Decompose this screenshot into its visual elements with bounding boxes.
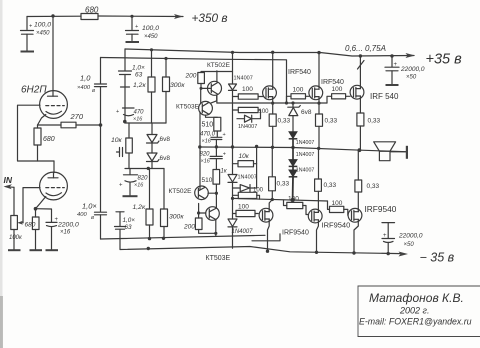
wire +350V rail [27,15,81,17]
node junction G x272 [271,146,274,149]
arrow input [4,184,15,189]
node junction Q4 emitter [214,232,217,235]
node junction G x256 [255,145,258,148]
wire output line G [200,147,406,152]
svg-text:680: 680 [25,222,36,229]
svg-text:22000,0: 22000,0 [400,66,425,73]
resistor R 100 gate2 upper [287,87,310,104]
wiper arrow into pot [18,221,24,225]
node junction bus lower x272 [271,198,274,201]
tube V1 upper triode [38,16,68,125]
node junction G x232 [231,145,234,148]
resistor R 100 gate3 lower [328,200,348,215]
svg-text:1,2к: 1,2к [133,204,146,211]
svg-text:300к: 300к [170,82,185,89]
svg-text:+: + [119,183,123,189]
capacitor C 2200,0x16 cathode bypass [36,209,80,250]
svg-text:+: + [29,24,33,30]
svg-text:IRF9540: IRF9540 [322,221,351,230]
svg-text:×400: ×400 [77,85,91,91]
wire gate bus lower y198.5 [233,198,328,201]
arrowhead -35 [399,252,409,257]
wire tube1 grid to SRPP midpoint [18,105,55,161]
svg-text:+: + [383,233,387,239]
bar terminal mid [121,86,130,88]
node junction G x199 [198,145,201,148]
svg-text:400: 400 [77,212,87,218]
svg-text:IRF540: IRF540 [288,69,311,76]
svg-text:100к: 100к [9,235,23,241]
svg-text:+: + [116,109,119,115]
node junction rail C x166 [164,57,167,60]
node junction V1 gate bus [231,197,234,200]
node junction 270/rail [99,123,103,127]
node junction M3 drain on rail [359,54,362,57]
svg-text:1,0×: 1,0× [82,202,97,211]
svg-text:6v8: 6v8 [160,155,171,162]
wire 270 to rail x100 [76,124,101,126]
diode VD 1N4007 horizontal lower [233,164,264,194]
resistor R 10k lower horizontal [233,147,257,167]
mosfet M4 IRF9540 [259,191,273,251]
resistor R 10k vertical [111,123,132,169]
wire +35 corner into 1,0x63 upper [124,49,126,71]
svg-text:0,33: 0,33 [324,182,337,189]
node junction M1 source bus [271,102,274,105]
transistor Q3 KT502E lower [195,186,217,200]
svg-text:100,0: 100,0 [142,25,159,32]
resistor R 680 cathode upper [34,125,55,161]
resistor R 0,33 lower2 [315,148,337,191]
svg-text:КТ503Е: КТ503Е [206,255,231,262]
wire link E to F at x120 [119,239,121,249]
svg-text:IN: IN [4,175,13,185]
wire bias wire y123 [125,122,166,124]
ground below pot [8,249,21,251]
resistor R 300k lower [161,169,185,238]
node junction bus E x149 [148,237,151,240]
svg-text:680: 680 [85,6,99,15]
resistor R 100 gate1 upper [233,86,264,99]
capacitor C 470x16 upper [116,108,144,123]
node junction 22000 lower on rail [387,252,390,255]
svg-text:10к: 10к [111,137,123,144]
resistor R 0,33 upper1 [269,114,290,147]
diode VD 1N4007 horizontal upper [237,110,261,130]
ground below left cap [21,51,35,53]
wire bus E y238 [101,235,266,239]
wire base vertical x199 down [199,112,201,190]
node junction M4 drain [266,250,269,253]
wire rail to arrow [98,15,183,18]
node junction bus D x148 [147,167,150,170]
svg-text:0,33: 0,33 [278,118,291,125]
ground below 2200 cap [46,249,59,251]
mosfet M5 IRF9540 [308,191,322,252]
svg-text:×450: ×450 [36,31,50,37]
svg-text:1N4007: 1N4007 [238,124,257,130]
node junction Q4 base [197,211,200,214]
svg-text:IRF 540: IRF 540 [370,92,399,101]
svg-text:6v8: 6v8 [160,136,171,143]
arrowhead +35 [406,53,416,58]
svg-text:100: 100 [293,87,304,94]
capacitor C 470,0x16 [200,132,226,157]
node junction G x318 [317,147,320,150]
svg-text:0,33: 0,33 [277,181,290,188]
ground bar below 820 cap [123,195,138,197]
capacitor C 820x16 mid [200,152,227,170]
wire Q3 to Q4 base vertical [198,204,200,214]
svg-text:680: 680 [43,136,55,143]
svg-text:×16: ×16 [133,117,143,123]
svg-text:100: 100 [242,86,253,93]
speaker [374,142,407,161]
node junction G x293 [291,146,294,149]
node junction bus x286 [285,101,288,104]
mosfet M1 IRF540 [263,52,277,114]
resistor R 100 gate1 lower [233,204,259,217]
svg-text:470: 470 [134,110,145,116]
svg-text:+35 в: +35 в [426,52,463,68]
wire V1 vertical x232 top [232,52,234,84]
svg-text:300к: 300к [169,214,184,221]
wire vertical rail x100 upper [100,58,102,84]
svg-text:1N4007: 1N4007 [296,140,315,146]
resistor R 0,33 lower3 [355,150,380,211]
mosfet M2 IRF540 [309,53,323,114]
svg-text:6v8: 6v8 [301,109,312,116]
svg-text:×16: ×16 [202,139,212,145]
svg-text:22000,0: 22000,0 [398,233,423,240]
svg-text:2002 г.: 2002 г. [399,306,429,316]
svg-text:IRF9540: IRF9540 [282,230,309,237]
node junction on rail x53 [51,14,54,17]
resistor R 200 upper [185,73,211,89]
wire gate bus upper y103 [217,102,327,104]
resistor R 0,33 upper2 [316,114,338,148]
arrowhead +350 [174,14,183,19]
wire bus E corner piece [252,234,280,241]
svg-text:в: в [91,215,94,221]
svg-text:в: в [92,88,95,94]
svg-text:×50: ×50 [406,75,417,81]
zener VD 6v8 second [147,153,171,169]
node junction on rail x132 [130,15,133,18]
mosfet M6 IRF9540 [348,208,362,253]
capacitor C 100,0x450 left [21,17,52,51]
svg-text:100: 100 [332,200,343,207]
diode VD 1N4007 on V1 mid [228,175,257,220]
svg-text:6Н2П: 6Н2П [21,85,47,96]
svg-text:100: 100 [288,196,299,203]
svg-text:200: 200 [185,73,197,80]
wire +35V rail [125,49,414,56]
capacitor C 820x16 left with ground [119,169,148,196]
wire bias bus D y168.5 [125,168,164,170]
node junction bus lower x292 [290,198,294,202]
capacitor C 22000,0x50 upper [385,54,425,84]
resistor R 100 gate2 lower [284,196,308,215]
diode chain VD 1N4007 x293 first [289,132,315,148]
svg-text:− 35 в: − 35 в [420,251,455,265]
node junction G x216 [215,145,218,148]
svg-text:1N4007: 1N4007 [296,168,315,174]
svg-text:+: + [135,24,139,30]
tube V2 lower triode [36,161,68,209]
svg-text:+350 в: +350 в [192,11,228,25]
wire V1 vertical x232 mid [232,147,234,175]
svg-text:10к: 10к [239,153,250,160]
node junction Q1 base [200,87,203,90]
svg-text:1N4007: 1N4007 [238,175,257,181]
svg-text:IRF540: IRF540 [321,79,344,86]
ground bar below 22000 upper [386,84,399,86]
resistor R 100 gate3 upper [327,86,350,103]
ground below second cap [126,41,140,43]
node junction M2 drain on rail [317,51,320,54]
node junction Q3 collector [215,192,218,195]
resistor R 680 anode [81,14,98,20]
svg-text:1N4007: 1N4007 [232,229,254,235]
svg-text:КТ503Е: КТ503Е [176,104,200,111]
svg-text:1,2к: 1,2к [133,82,146,89]
diode VD 1N4007 on V1 bottom [228,219,253,248]
fuse slash on M3 drain [358,61,365,70]
resistor R 200 lower [183,213,216,236]
resistor R 1,2k upper [133,50,155,123]
svg-text:+: + [394,62,398,68]
svg-text:100,0: 100,0 [34,22,51,29]
diode VD 1N4007 on V1 top [229,76,253,148]
capacitor C 1,0x63 upper [119,65,146,122]
transistor Q1 KT502E [208,71,222,103]
svg-text:1,0×: 1,0× [132,65,145,72]
capacitor C 1,0x63 lower [115,212,136,239]
zener VD 6v8 mid [288,103,312,132]
title block box [358,286,480,337]
resistor R 270 [61,122,76,128]
mosfet M3 IRF540 [350,56,364,113]
node junction bus x293 [291,101,294,104]
node junction M5 drain [315,251,318,254]
svg-text:100: 100 [238,204,249,211]
svg-text:КТ502Е: КТ502Е [169,188,193,195]
capacitor small left of 10k [117,148,123,157]
transistor Q4 KT503E lower [199,207,220,234]
node junction V1 on +35 rail [231,51,234,54]
resistor R 100 fb lower [233,192,260,199]
svg-text:2200,0: 2200,0 [57,222,79,229]
svg-text:0,6... 0,75A: 0,6... 0,75A [345,44,386,53]
resistor R 510 upper [202,117,221,137]
transistor Q2 KT503E [199,95,218,117]
diode chain VD 1N4007 second [289,148,315,167]
node cathode junction tube2 [34,207,38,211]
wire vertical rail x100 mid [100,87,102,212]
wire top H y71.5 [201,71,233,73]
svg-text:1к: 1к [221,169,228,175]
capacitor C 1,0x400 lower coupling [77,202,107,222]
svg-text:IRF9540: IRF9540 [365,204,397,214]
svg-text:1,0×: 1,0× [123,217,136,224]
svg-text:+: + [223,132,226,138]
node junction M6 drain [352,251,355,254]
capacitor C 1,0x400 upper coupling [77,74,107,95]
resistor R 1,2k lower [133,169,154,239]
node junction M2 bus [317,102,320,105]
svg-text:63: 63 [135,72,143,79]
svg-text:1N4007: 1N4007 [234,76,253,82]
capacitor C 22000,0x50 lower [382,223,423,254]
resistor R 0,33 upper3 [357,113,381,150]
wire base link Q1-Q2 [200,88,202,103]
svg-text:×450: ×450 [144,34,158,40]
svg-text:0,33: 0,33 [325,118,338,125]
resistor R 1k [213,169,228,209]
node junction G x361 [358,148,362,152]
node junction bus E x163 [162,237,165,240]
wire rail C signal [101,58,287,104]
svg-text:63: 63 [125,224,133,231]
wire bus F -35 rail [120,247,401,254]
svg-text:Матафонов К.В.: Матафонов К.В. [369,291,464,305]
resistor R 100 second upper [233,107,270,115]
wire tube2 grid left and down to wiper [23,188,40,223]
svg-text:0,33: 0,33 [368,118,381,125]
resistor R 0,33 lower1 [269,147,290,191]
svg-text:510: 510 [202,177,213,184]
svg-text:820: 820 [200,152,211,158]
svg-text:+: + [223,152,226,158]
svg-text:E-mail: FOXER1@yandex.ru: E-mail: FOXER1@yandex.ru [359,317,472,327]
svg-text:270: 270 [70,112,84,121]
resistor R 680 cathode lower [25,209,40,250]
svg-text:0,33: 0,33 [367,183,380,190]
diode chain VD 1N4007 third [289,166,315,200]
svg-text:100: 100 [332,86,343,93]
zener VD 6v8 first [147,123,171,153]
node junction x124 y121 [123,120,127,124]
ground below cathode resistor [30,249,43,251]
svg-text:×16: ×16 [60,230,71,236]
svg-text:1N4007: 1N4007 [296,152,315,158]
svg-text:200: 200 [183,224,195,231]
svg-text:470,0: 470,0 [200,132,216,138]
capacitor C 100,0x450 second [126,16,160,40]
svg-text:820: 820 [138,176,149,182]
wire cathode to 270 [38,124,62,126]
svg-text:510: 510 [202,122,214,129]
svg-text:×16: ×16 [201,159,211,165]
node junction 1,2k on rail [150,48,153,51]
svg-text:КТ502Е: КТ502Е [207,62,231,69]
resistor R 300k upper [163,59,186,124]
node junction M1 drain on rail [271,51,274,54]
svg-text:×16: ×16 [134,183,144,189]
wire vertical rail x100 bottom to bus E [100,215,102,239]
potentiometer 100k [9,187,23,249]
scan edge noise [0,0,3,348]
node junction bus F x148 [147,247,150,250]
svg-text:1,0: 1,0 [80,74,91,83]
svg-text:×50: ×50 [404,242,415,248]
